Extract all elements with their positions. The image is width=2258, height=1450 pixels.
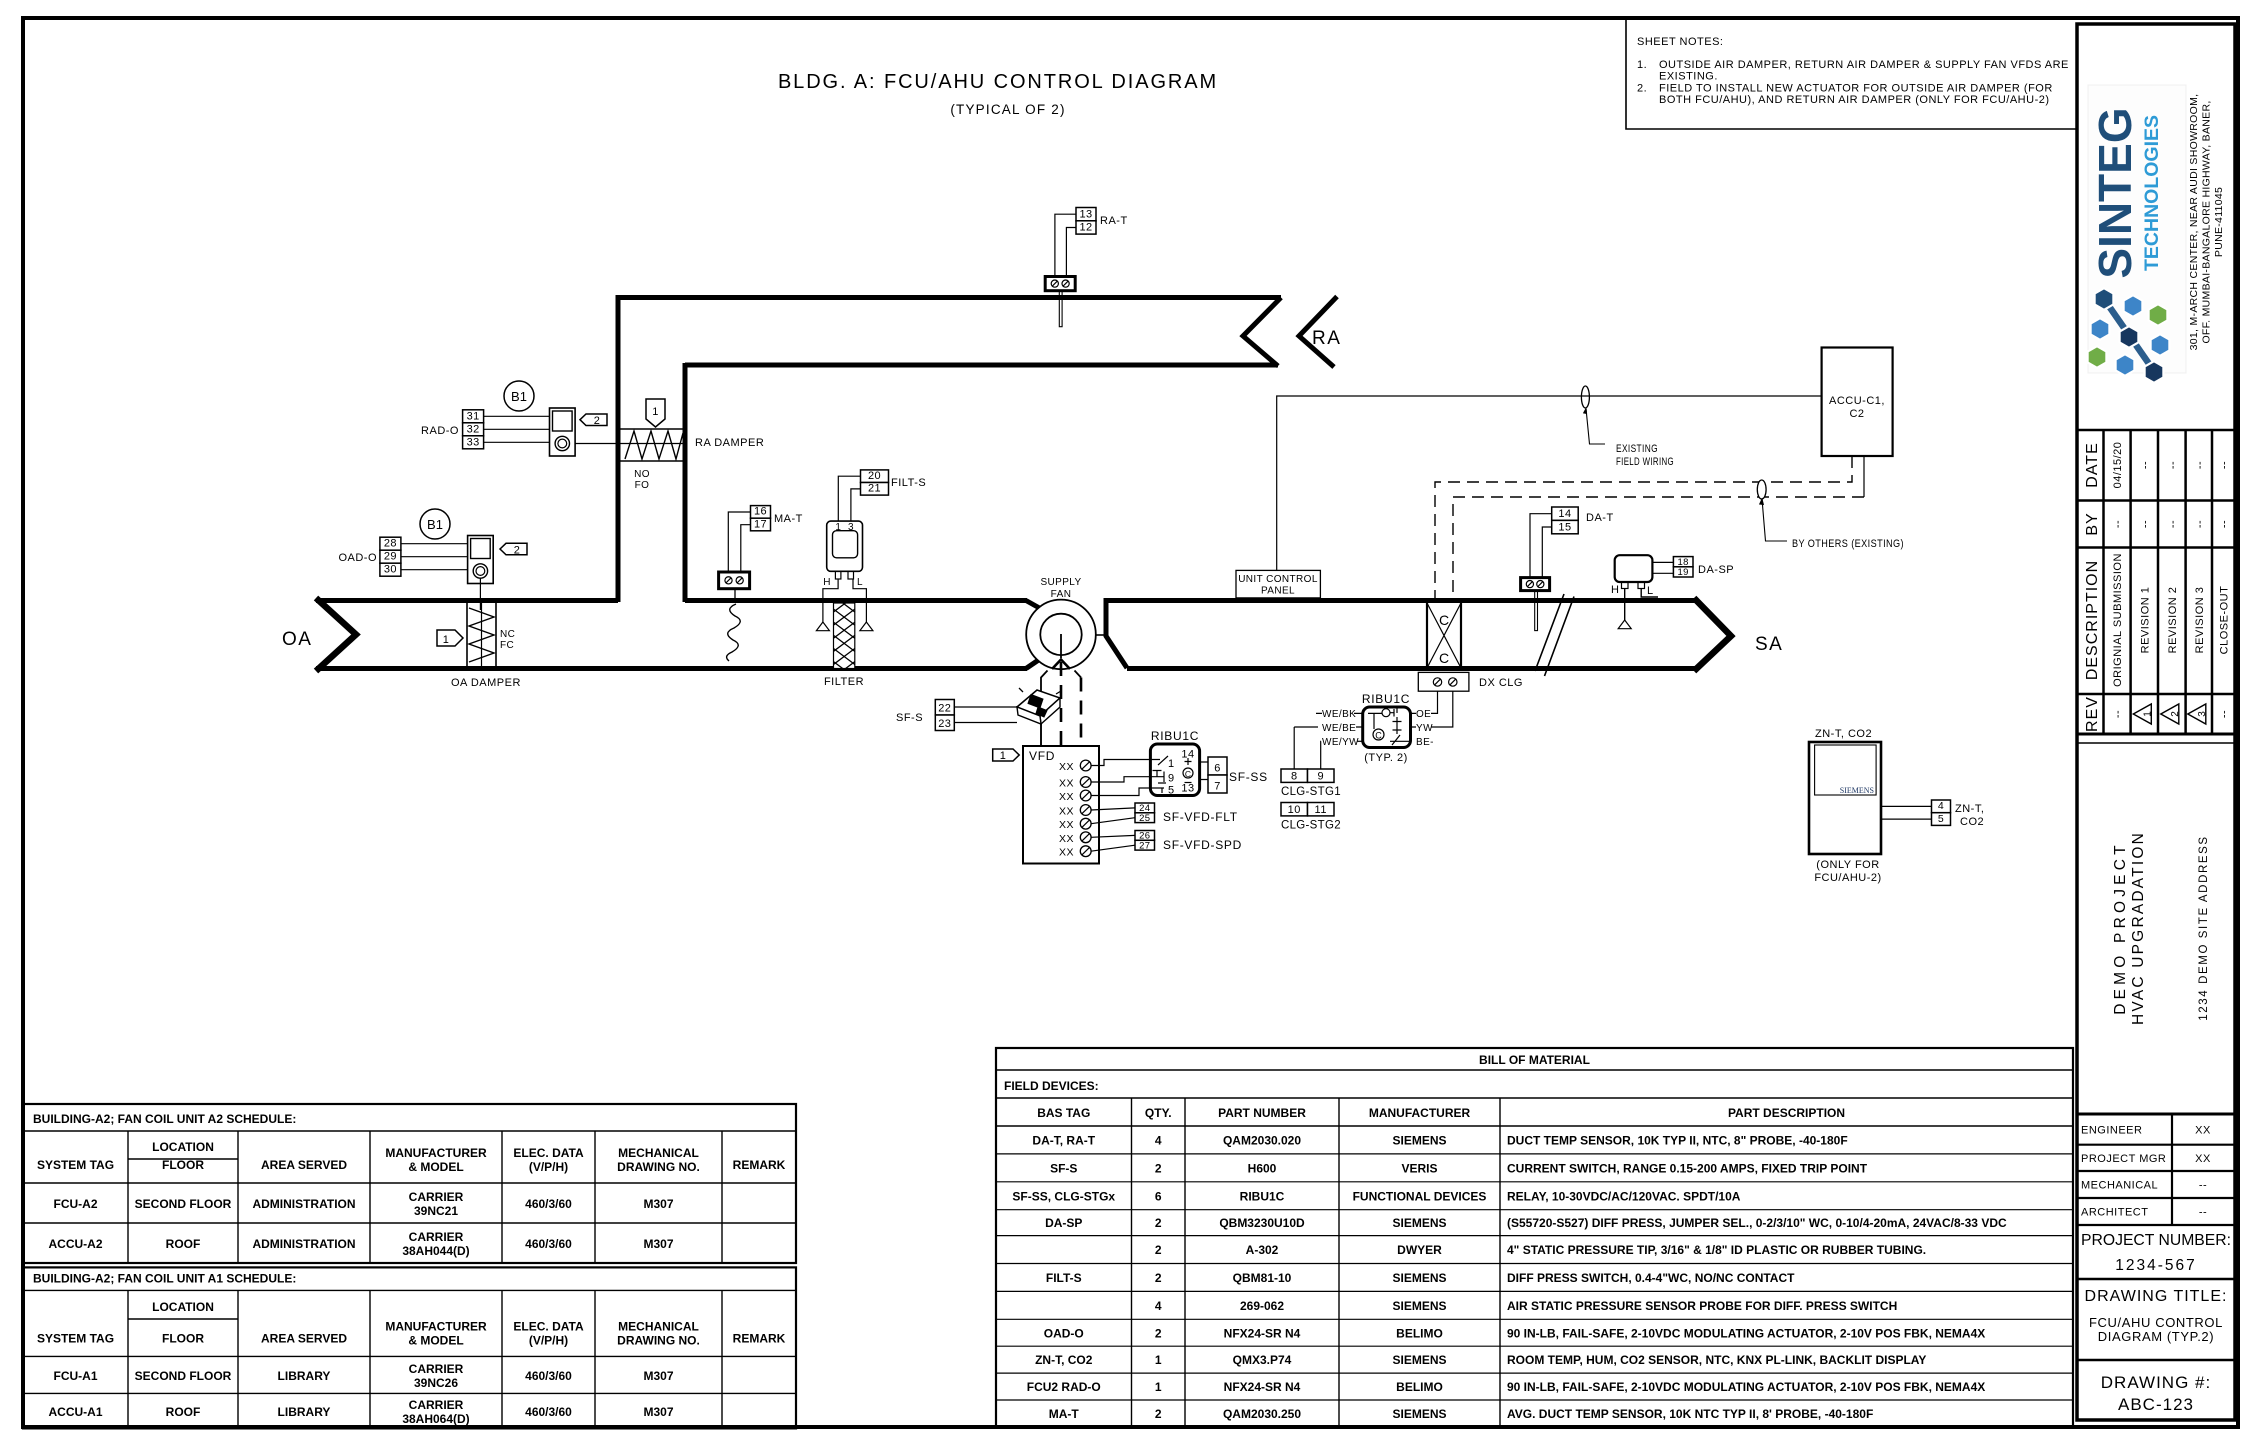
wire WE/BE run (1294, 726, 1363, 728)
svg-text:OAD-O: OAD-O (338, 552, 377, 564)
wires RA-T (1055, 214, 1076, 276)
svg-text:MA-T: MA-T (1049, 1407, 1080, 1421)
svg-text:(TYP. 2): (TYP. 2) (1364, 752, 1408, 764)
svg-text:15: 15 (1558, 521, 1571, 533)
filter diff-press switch (823, 521, 863, 588)
svg-text:(V/P/H): (V/P/H) (529, 1333, 568, 1347)
svg-text:BILL OF MATERIAL: BILL OF MATERIAL (1479, 1053, 1590, 1067)
wires FILT-S (838, 476, 860, 521)
svg-text:2: 2 (1155, 1326, 1162, 1340)
svg-text:13: 13 (1079, 208, 1092, 220)
terminal pair CLG-STG1 8/9 (1281, 769, 1334, 782)
svg-text:FAN: FAN (1051, 589, 1072, 600)
VFD box (1023, 746, 1099, 864)
wire actuator to OA damper (479, 578, 481, 610)
svg-text:FC: FC (500, 640, 514, 651)
svg-text:PART NUMBER: PART NUMBER (1218, 1106, 1306, 1120)
svg-text:AIR STATIC PRESSURE SENSOR PRO: AIR STATIC PRESSURE SENSOR PROBE FOR DIF… (1507, 1299, 1897, 1313)
fan outlet transition (1106, 598, 1127, 668)
svg-text:FLOOR: FLOOR (162, 1158, 204, 1172)
terminal pair CLG-STG2 10/11 (1281, 803, 1334, 816)
svg-text:2: 2 (2170, 711, 2181, 717)
svg-text:C: C (1375, 731, 1382, 741)
svg-text:SHEET NOTES:: SHEET NOTES: (1637, 36, 1723, 48)
terminal stack DA-SP 18/19 (1673, 557, 1693, 579)
svg-text:OUTSIDE AIR DAMPER, RETURN: OUTSIDE AIR DAMPER, RETURN AIR DAMPER & … (1659, 59, 2069, 71)
svg-text:BY: BY (2084, 512, 2101, 535)
svg-text:460/3/60: 460/3/60 (525, 1237, 572, 1251)
sensor head MA-T (719, 572, 750, 589)
dashed drive lines to VFD (1041, 671, 1048, 746)
svg-text:MANUFACTURER: MANUFACTURER (1369, 1106, 1471, 1120)
svg-text:21: 21 (868, 483, 881, 495)
svg-text:--: -- (2194, 520, 2206, 528)
splice oval 1 (1581, 386, 1589, 408)
svg-text:XX: XX (2195, 1153, 2211, 1165)
damper RA (620, 429, 684, 461)
svg-text:SIEMENS: SIEMENS (1392, 1353, 1446, 1367)
svg-text:C: C (1439, 612, 1449, 628)
svg-text:31: 31 (467, 410, 480, 422)
svg-text:12: 12 (1079, 222, 1092, 234)
svg-text:14: 14 (1558, 508, 1571, 520)
svg-text:33: 33 (467, 436, 480, 448)
svg-text:FILT-S: FILT-S (1046, 1271, 1082, 1285)
revision table (2077, 430, 2235, 734)
svg-text:2: 2 (1155, 1243, 1162, 1257)
svg-text:XX: XX (1059, 819, 1074, 831)
solid stub ACCU lower (1863, 456, 1865, 497)
title block frame (2077, 24, 2235, 1420)
svg-text:C2: C2 (1849, 408, 1864, 420)
wire VFD r2 to RIBU1C pin9 (1091, 777, 1150, 782)
svg-text:04/15/20: 04/15/20 (2112, 442, 2124, 489)
svg-text:& MODEL: & MODEL (408, 1333, 463, 1347)
probe DA-T (1535, 591, 1538, 631)
duct RA break chevron 1 (1243, 298, 1281, 367)
svg-text:460/3/60: 460/3/60 (525, 1369, 572, 1383)
pin 5 (1150, 783, 1166, 793)
svg-text:OA DAMPER: OA DAMPER (451, 677, 521, 689)
logo SINTEG (2088, 85, 2186, 383)
svg-text:39NC26: 39NC26 (414, 1376, 458, 1390)
svg-text:ROOM TEMP, HUM, CO2 SENSOR, NT: ROOM TEMP, HUM, CO2 SENSOR, NTC, KNX PL-… (1507, 1353, 1926, 1367)
svg-text:FIELD WIRING: FIELD WIRING (1616, 456, 1674, 468)
svg-text:ELEC. DATA: ELEC. DATA (513, 1319, 584, 1333)
svg-text:MANUFACTURER: MANUFACTURER (385, 1146, 487, 1160)
svg-text:H: H (1611, 584, 1619, 596)
terminal stack SF-SS 6/7 (1208, 757, 1227, 793)
svg-text:CARRIER: CARRIER (409, 1230, 464, 1244)
svg-text:UNIT CONTROL: UNIT CONTROL (1238, 574, 1318, 585)
svg-text:REVISION 1: REVISION 1 (2139, 587, 2151, 654)
svg-text:FIELD TO INSTALL NEW ACTUA: FIELD TO INSTALL NEW ACTUATOR FOR OUTSID… (1659, 83, 2053, 95)
svg-text:DRAWING NO.: DRAWING NO. (617, 1160, 700, 1174)
svg-text:SF-S: SF-S (896, 712, 923, 724)
svg-text:BELIMO: BELIMO (1396, 1326, 1443, 1340)
svg-text:FCU/AHU CONTROL: FCU/AHU CONTROL (2089, 1315, 2223, 1330)
probe RA-T (1059, 291, 1062, 327)
terminal stack DA-T 14/15 (1552, 507, 1579, 534)
duct MA plenum top (685, 598, 1027, 603)
svg-text:5: 5 (1938, 813, 1944, 825)
svg-text:CO2: CO2 (1960, 816, 1984, 828)
wire VFD r5 to t25 (1091, 818, 1135, 824)
svg-text:BUILDING-A2; FAN COIL UNIT A1: BUILDING-A2; FAN COIL UNIT A1 SCHEDULE: (33, 1271, 296, 1285)
svg-text:DA-SP: DA-SP (1698, 564, 1734, 576)
wire t9 up to WE/YW (1320, 741, 1322, 769)
svg-text:4: 4 (1155, 1299, 1162, 1313)
svg-text:(ONLY FOR: (ONLY FOR (1816, 859, 1879, 871)
svg-text:QAM2030.020: QAM2030.020 (1223, 1133, 1301, 1147)
svg-text:LOCATION: LOCATION (152, 1140, 214, 1154)
wire SF-S to VFD (1040, 724, 1042, 746)
svg-text:--: -- (2194, 461, 2206, 469)
svg-text:WE/BE: WE/BE (1322, 723, 1356, 734)
svg-text:DA-T, RA-T: DA-T, RA-T (1032, 1133, 1095, 1147)
actuator RAD-O (550, 408, 576, 456)
sensor head DA-T (1521, 578, 1550, 591)
duct RA top run (618, 295, 1281, 300)
svg-text:M307: M307 (643, 1369, 673, 1383)
node B1 (OAD-O) (420, 509, 450, 539)
svg-text:39NC21: 39NC21 (414, 1204, 458, 1218)
wires 28-30 to actuator (401, 544, 468, 570)
svg-text:M307: M307 (643, 1405, 673, 1419)
svg-text:3: 3 (848, 522, 854, 533)
wire VFD r7 to t27 (1091, 845, 1135, 851)
svg-text:--: -- (2219, 710, 2231, 718)
wire t8 up to WE/BE (1293, 727, 1295, 769)
svg-text:FCU-A2: FCU-A2 (54, 1197, 98, 1211)
svg-text:H: H (823, 577, 831, 588)
fan inlet transition (1026, 601, 1043, 611)
svg-text:MANUFACTURER: MANUFACTURER (385, 1319, 487, 1333)
svg-text:1: 1 (835, 522, 841, 533)
svg-text:--: -- (2112, 520, 2124, 528)
svg-text:BAS TAG: BAS TAG (1037, 1106, 1090, 1120)
svg-text:22: 22 (938, 703, 951, 715)
svg-text:(V/P/H): (V/P/H) (529, 1160, 568, 1174)
table bill of material (996, 1048, 2073, 1427)
svg-text:L: L (1647, 585, 1654, 597)
svg-text:DIAGRAM (TYP.2): DIAGRAM (TYP.2) (2098, 1329, 2214, 1344)
svg-text:301, M-ARCH CENTER, NEAR AU: 301, M-ARCH CENTER, NEAR AUDI SHOWROOM, (2188, 94, 2200, 351)
svg-text:SYSTEM TAG: SYSTEM TAG (37, 1158, 114, 1172)
svg-text:ZN-T, CO2: ZN-T, CO2 (1035, 1353, 1093, 1367)
dashed run ACCU to coil (upper) (1435, 456, 1852, 601)
svg-text:PROJECT MGR: PROJECT MGR (2081, 1153, 2166, 1165)
svg-text:FILT-S: FILT-S (891, 477, 926, 489)
svg-text:5: 5 (1168, 785, 1175, 797)
wires 31-33 to actuator (484, 416, 550, 442)
duct OA run (316, 598, 618, 603)
svg-text:1: 1 (652, 406, 659, 418)
svg-text:A-302: A-302 (1246, 1243, 1279, 1257)
svg-text:FILTER: FILTER (824, 676, 864, 688)
fan shaft arrow (1052, 660, 1070, 670)
svg-text:DATE: DATE (2084, 442, 2101, 487)
svg-text:90 IN-LB, FAIL-SAFE, 2-10VDC M: 90 IN-LB, FAIL-SAFE, 2-10VDC MODULATING … (1507, 1380, 1985, 1394)
svg-text:1.: 1. (1637, 59, 1647, 71)
terminal stack 24/25 (1135, 803, 1155, 824)
svg-text:NC: NC (500, 629, 515, 640)
svg-text:SUPPLY: SUPPLY (1040, 577, 1081, 588)
svg-text:XX: XX (1059, 778, 1074, 790)
flag 2 (RAD-O) (580, 414, 607, 426)
svg-text:FO: FO (635, 480, 650, 491)
svg-text:REVISION 3: REVISION 3 (2194, 587, 2206, 654)
svg-text:CARRIER: CARRIER (409, 1362, 464, 1376)
svg-text:SF-SS: SF-SS (1229, 770, 1268, 784)
supply fan (1026, 600, 1096, 670)
dashed run ACCU to coil (lower) (1453, 497, 1864, 601)
table schedule A2 (23, 1104, 796, 1263)
svg-text:13: 13 (1181, 783, 1194, 795)
terminal stack 26/27 (1135, 831, 1155, 852)
svg-text:2.: 2. (1637, 83, 1647, 95)
svg-text:MECHANICAL: MECHANICAL (618, 1146, 699, 1160)
svg-text:SYSTEM TAG: SYSTEM TAG (37, 1331, 114, 1345)
svg-text:VERIS: VERIS (1401, 1161, 1437, 1175)
svg-text:ZN-T, CO2: ZN-T, CO2 (1815, 728, 1872, 740)
svg-text:SF-S: SF-S (1050, 1161, 1077, 1175)
svg-text:1: 1 (443, 634, 450, 646)
svg-text:ACCU-A2: ACCU-A2 (49, 1237, 103, 1251)
flag 1 (VFD) (993, 749, 1020, 761)
svg-text:AREA SERVED: AREA SERVED (261, 1158, 347, 1172)
svg-text:FCU2 RAD-O: FCU2 RAD-O (1027, 1380, 1101, 1394)
svg-text:--: -- (2167, 461, 2179, 469)
svg-text:29: 29 (384, 551, 397, 563)
svg-text:9: 9 (1317, 770, 1324, 782)
svg-text:XX: XX (1059, 791, 1074, 803)
duct OA inlet chevron (316, 598, 356, 671)
svg-text:1: 1 (2142, 711, 2153, 717)
svg-text:ROOF: ROOF (166, 1405, 201, 1419)
svg-text:CARRIER: CARRIER (409, 1190, 464, 1204)
svg-text:ZN-T,: ZN-T, (1955, 803, 1984, 815)
svg-text:11: 11 (1315, 804, 1327, 816)
svg-text:SF-VFD-FLT: SF-VFD-FLT (1163, 810, 1238, 824)
room sensor ZN-T CO2 (1809, 742, 1881, 854)
svg-text:SF-SS, CLG-STGx: SF-SS, CLG-STGx (1012, 1189, 1115, 1203)
svg-text:--: -- (2199, 1207, 2207, 1219)
svg-text:DRAWING TITLE:: DRAWING TITLE: (2085, 1288, 2228, 1305)
svg-text:MECHANICAL: MECHANICAL (2081, 1180, 2158, 1192)
svg-text:M307: M307 (643, 1197, 673, 1211)
svg-text:XX: XX (1059, 761, 1074, 773)
svg-text:NFX24-SR N4: NFX24-SR N4 (1224, 1326, 1301, 1340)
wire actuator to RA damper (575, 443, 684, 445)
svg-text:1: 1 (1155, 1380, 1162, 1394)
svg-text:XX: XX (1059, 847, 1074, 859)
pin 1 (1150, 756, 1168, 765)
svg-text:ACCU-A1: ACCU-A1 (49, 1405, 103, 1419)
svg-text:XX: XX (1059, 833, 1074, 845)
svg-text:--: -- (2112, 710, 2124, 718)
terminal stack SF-S 22/23 (935, 700, 954, 731)
svg-text:SECOND FLOOR: SECOND FLOOR (135, 1197, 232, 1211)
DA-SP L ref (1641, 589, 1658, 598)
svg-text:FCU/AHU-2): FCU/AHU-2) (1814, 872, 1881, 884)
svg-text:REMARK: REMARK (733, 1158, 786, 1172)
svg-text:--: -- (2139, 520, 2151, 528)
DX CLG terminal box (1418, 672, 1469, 691)
svg-text:2: 2 (1155, 1407, 1162, 1421)
svg-text:AREA SERVED: AREA SERVED (261, 1331, 347, 1345)
terminal stack FILT-S 20/21 (861, 470, 889, 495)
svg-text:DESCRIPTION: DESCRIPTION (2084, 560, 2101, 680)
svg-text:M307: M307 (643, 1237, 673, 1251)
static press sensor DA-SP (1611, 555, 1654, 597)
svg-text:CURRENT SWITCH, RANGE 0.15-200: CURRENT SWITCH, RANGE 0.15-200 AMPS, FIX… (1507, 1161, 1868, 1175)
svg-text:PART DESCRIPTION: PART DESCRIPTION (1728, 1106, 1845, 1120)
svg-text:H600: H600 (1248, 1161, 1277, 1175)
node B1 (RAD-O) (504, 381, 534, 411)
svg-text:28: 28 (384, 538, 397, 550)
duct SA run (1104, 598, 1695, 603)
svg-text:LIBRARY: LIBRARY (278, 1405, 331, 1419)
wire UCP up and to ACCU (1277, 396, 1822, 570)
svg-text:8: 8 (1291, 770, 1298, 782)
svg-text:SIEMENS: SIEMENS (1392, 1216, 1446, 1230)
svg-text:SF-VFD-SPD: SF-VFD-SPD (1163, 838, 1242, 852)
wires DA-SP to 18/19 (1652, 562, 1673, 573)
DA-SP H probe (1624, 589, 1626, 621)
svg-text:7: 7 (1214, 781, 1221, 793)
svg-text:10: 10 (1288, 804, 1301, 816)
svg-text:VFD: VFD (1029, 749, 1055, 763)
svg-text:RELAY, 10-30VDC/AC/120VAC. SPD: RELAY, 10-30VDC/AC/120VAC. SPDT/10A (1507, 1189, 1741, 1203)
svg-text:LIBRARY: LIBRARY (278, 1369, 331, 1383)
svg-text:CLG-STG2: CLG-STG2 (1281, 820, 1341, 832)
svg-text:PUNE-411045: PUNE-411045 (2213, 187, 2225, 257)
svg-text:38AH064(D): 38AH064(D) (402, 1412, 469, 1426)
svg-text:REMARK: REMARK (733, 1331, 786, 1345)
svg-text:ROOF: ROOF (166, 1237, 201, 1251)
flag 1 (RA damper) (646, 399, 665, 427)
svg-text:WE/BK: WE/BK (1322, 709, 1356, 720)
svg-text:MA-T: MA-T (774, 513, 803, 525)
svg-text:BUILDING-A2; FAN COIL UNIT A2: BUILDING-A2; FAN COIL UNIT A2 SCHEDULE: (33, 1112, 296, 1126)
svg-text:DWYER: DWYER (1397, 1243, 1442, 1257)
svg-text:6: 6 (1155, 1189, 1162, 1203)
svg-text:XX: XX (2195, 1124, 2211, 1136)
svg-text:30: 30 (384, 564, 397, 576)
svg-text:4: 4 (1155, 1133, 1162, 1147)
svg-text:OA: OA (282, 629, 312, 650)
svg-text:LOCATION: LOCATION (152, 1300, 214, 1314)
svg-text:1: 1 (1168, 758, 1175, 770)
svg-text:(TYPICAL OF 2): (TYPICAL OF 2) (950, 102, 1065, 117)
svg-text:ACCU-C1,: ACCU-C1, (1829, 395, 1885, 407)
svg-text:ELEC. DATA: ELEC. DATA (513, 1146, 584, 1160)
damper OA (467, 603, 496, 666)
svg-text:SIEMENS: SIEMENS (1392, 1407, 1446, 1421)
terminal stack ZN-T 4/5 (1932, 800, 1951, 825)
table schedule A1 (23, 1267, 796, 1428)
svg-text:REVISION 2: REVISION 2 (2167, 587, 2179, 654)
svg-text:QBM81-10: QBM81-10 (1233, 1271, 1292, 1285)
svg-text:RIBU1C: RIBU1C (1151, 729, 1199, 743)
svg-text:AVG. DUCT TEMP SENSOR, 10K NTC: AVG. DUCT TEMP SENSOR, 10K NTC TYP II, 8… (1507, 1407, 1873, 1421)
project name section (2077, 742, 2235, 744)
unit ACCU-C1,C2 (1822, 348, 1893, 457)
sensor head RA-T (1045, 277, 1075, 291)
svg-text:NO: NO (634, 469, 650, 480)
svg-text:PROJECT NUMBER:: PROJECT NUMBER: (2081, 1232, 2231, 1249)
wires DA-T (1530, 514, 1552, 578)
wire VFD r3 to RIBU1C pin5 (1091, 788, 1150, 796)
svg-text:OAD-O: OAD-O (1044, 1326, 1084, 1340)
svg-text:B1: B1 (511, 389, 527, 404)
svg-text:32: 32 (467, 423, 480, 435)
svg-text:17: 17 (754, 518, 767, 530)
svg-text:DA-SP: DA-SP (1045, 1216, 1082, 1230)
svg-text:DIFF PRESS SWITCH, 0.4-4"WC, N: DIFF PRESS SWITCH, 0.4-4"WC, NO/NC CONTA… (1507, 1271, 1795, 1285)
averaging element coil (727, 604, 741, 661)
wires to 4/5 (1881, 806, 1932, 819)
svg-text:ABC-123: ABC-123 (2118, 1395, 2194, 1414)
svg-text:RA DAMPER: RA DAMPER (695, 437, 764, 449)
svg-text:1: 1 (1155, 1353, 1162, 1367)
svg-text:NFX24-SR N4: NFX24-SR N4 (1224, 1380, 1301, 1394)
leader EXISTING FIELD WIRING (1586, 409, 1605, 445)
svg-text:SIEMENS: SIEMENS (1392, 1299, 1446, 1313)
wire VFD r1 to RIBU1C pin1 (1091, 760, 1150, 766)
svg-text:QAM2030.250: QAM2030.250 (1223, 1407, 1301, 1421)
svg-text:2: 2 (514, 544, 521, 556)
svg-text:MECHANICAL: MECHANICAL (618, 1319, 699, 1333)
svg-text:WE/YW: WE/YW (1322, 737, 1359, 748)
svg-text:25: 25 (1139, 813, 1150, 824)
svg-text:--: -- (2219, 520, 2231, 528)
svg-text:HVAC UPGRADATION: HVAC UPGRADATION (2130, 831, 2147, 1025)
svg-text:RIBU1C: RIBU1C (1362, 692, 1410, 706)
svg-text:& MODEL: & MODEL (408, 1160, 463, 1174)
svg-text:2: 2 (1155, 1216, 1162, 1230)
svg-text:(S55720-S527) DIFF PRESS, JUMP: (S55720-S527) DIFF PRESS, JUMPER SEL., 0… (1507, 1216, 2007, 1230)
svg-text:CLOSE-OUT: CLOSE-OUT (2219, 586, 2231, 655)
svg-text:1: 1 (1000, 750, 1007, 762)
wires relay to 6/7 (1200, 762, 1208, 780)
svg-text:SIEMENS: SIEMENS (1392, 1271, 1446, 1285)
flag 2 (OAD-O) (500, 543, 527, 555)
svg-text:YW: YW (1416, 723, 1433, 734)
svg-text:C: C (1439, 650, 1449, 666)
svg-text:EXISTING: EXISTING (1616, 443, 1658, 455)
svg-text:ORIGNIAL SUBMISSION: ORIGNIAL SUBMISSION (2112, 553, 2124, 687)
svg-text:DUCT TEMP SENSOR, 10K TYP II,: DUCT TEMP SENSOR, 10K TYP II, NTC, 8" PR… (1507, 1133, 1848, 1147)
svg-text:ADMINISTRATION: ADMINISTRATION (252, 1197, 355, 1211)
unit control panel (1236, 570, 1320, 598)
wire VFD r4 to t24 (1091, 808, 1135, 810)
svg-text:19: 19 (1678, 567, 1689, 578)
svg-text:PANEL: PANEL (1261, 586, 1295, 597)
svg-text:ADMINISTRATION: ADMINISTRATION (252, 1237, 355, 1251)
svg-text:4: 4 (1938, 800, 1944, 812)
svg-text:B1: B1 (427, 517, 443, 532)
svg-text:RIBU1C: RIBU1C (1240, 1189, 1285, 1203)
svg-text:16: 16 (754, 506, 767, 518)
terminal stack MA-T 16/17 (751, 506, 771, 531)
svg-text:1234-567: 1234-567 (2115, 1257, 2197, 1274)
svg-text:CARRIER: CARRIER (409, 1398, 464, 1412)
svg-text:RA: RA (1312, 328, 1341, 349)
svg-text:CLG-STG1: CLG-STG1 (1281, 786, 1341, 798)
probe MA-T (734, 589, 736, 603)
